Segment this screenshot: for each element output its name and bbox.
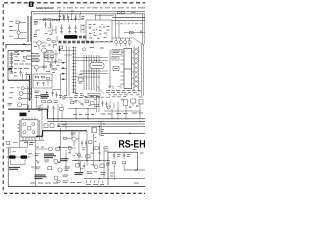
diode D604 [63, 78, 66, 80]
verticals [61, 128, 94, 166]
microtext [105, 147, 109, 151]
small box [139, 100, 143, 104]
resistor R690 [129, 31, 133, 33]
microtext [106, 163, 110, 165]
dark part label [20, 113, 27, 117]
IC601 block [124, 48, 132, 88]
motor circle [54, 176, 58, 180]
AC label dark [9, 167, 20, 169]
tick [140, 30, 141, 33]
verticals [84, 55, 99, 92]
diode D601 [63, 62, 66, 64]
risers [76, 109, 88, 119]
cap C631 [53, 106, 55, 113]
microtext [62, 125, 104, 136]
verticals [116, 14, 145, 44]
extra dots [111, 118, 140, 122]
parts below box [35, 91, 41, 97]
cap C701 [20, 70, 22, 76]
microtext [86, 183, 104, 185]
pins IC to ladder [132, 52, 134, 84]
ticks [82, 138, 96, 150]
label [9, 97, 13, 99]
diode D603 [63, 73, 66, 75]
verticals [114, 164, 124, 180]
svg-text:RS-EH6: RS-EH6 [118, 138, 145, 150]
wire [31, 66, 43, 72]
switch symbol [59, 16, 61, 22]
resistor R681 [123, 162, 126, 164]
IC pins bottom [23, 137, 35, 141]
cap C670 [98, 151, 100, 154]
resistor R660 [63, 137, 67, 139]
ellipse pad [57, 180, 61, 182]
legs [116, 38, 129, 46]
cluster left [79, 78, 83, 81]
loop wire [11, 160, 26, 165]
dark labels [75, 173, 84, 175]
extra parts band [112, 99, 140, 119]
microtext [110, 150, 144, 176]
wire with nodes [68, 108, 96, 110]
main circuit board outline [31, 12, 145, 99]
microtext [65, 167, 71, 171]
IC divider [124, 68, 132, 70]
box outline [8, 50, 31, 80]
page border top dashed [4, 2, 145, 4]
small box [86, 155, 90, 158]
pill text [92, 65, 102, 67]
long wire [84, 178, 145, 180]
IC pins left [121, 52, 125, 84]
cap C660 [81, 140, 83, 146]
AC motor M3 [18, 103, 22, 107]
cap C661 [85, 140, 87, 146]
cap C614 [50, 63, 52, 69]
microtext [35, 154, 40, 156]
mid cluster wires [44, 50, 60, 70]
diagonal [96, 86, 104, 94]
microtext [117, 155, 121, 157]
cap C610 [63, 16, 65, 22]
parts [60, 108, 64, 111]
triangle mark [28, 111, 30, 113]
resistor R651 [50, 124, 54, 128]
top mid box [86, 20, 112, 42]
riser [27, 105, 29, 110]
bus line 3 [57, 123, 145, 125]
dots [90, 24, 108, 35]
heavy bus wire [8, 79, 29, 81]
small parts above text [109, 85, 122, 90]
svg-text:MAIN CIRCUIT: MAIN CIRCUIT [36, 6, 54, 10]
bottom wire [20, 140, 45, 142]
cap C641 [106, 102, 108, 108]
side wires [20, 104, 43, 140]
cap C640 [102, 101, 104, 107]
microtext [54, 97, 66, 102]
top bus wire [33, 13, 145, 15]
parts row 1 [15, 50, 31, 52]
vertical rails [67, 46, 70, 96]
board bottom line [8, 186, 145, 188]
small box [56, 148, 60, 151]
cap C681 [123, 152, 125, 159]
resistor R631 [48, 100, 52, 102]
cap C621 [43, 83, 45, 87]
small box [100, 164, 104, 168]
rails [81, 24, 85, 33]
microtext [13, 141, 17, 143]
W label [28, 153, 32, 155]
microtext dashes [117, 23, 142, 25]
wire [58, 51, 72, 61]
transistor Q671 [78, 154, 81, 157]
cap C611 [45, 22, 47, 29]
wire [14, 33, 27, 39]
part [74, 16, 76, 22]
dark text rows [61, 159, 69, 161]
resistor R642 [90, 102, 94, 105]
wire stubs [36, 30, 57, 48]
junction dots [93, 147, 100, 150]
node dots [44, 19, 72, 20]
label [10, 87, 20, 89]
wire [68, 14, 81, 20]
extra verticals lower mid [66, 121, 94, 172]
resistor R601 [43, 19, 46, 21]
connector ladder crossings [134, 47, 138, 92]
resistor R680 [113, 162, 116, 164]
part [67, 16, 69, 22]
resistor R604 [56, 19, 59, 21]
transistor Q672 [94, 165, 98, 169]
resistor R622 [47, 78, 50, 80]
label block IC601 [34, 22, 39, 25]
small box [76, 164, 80, 167]
connector CN601 pin ladder [72, 47, 77, 94]
resistor R603 [52, 19, 55, 21]
cap C630 [47, 105, 49, 112]
small parts [37, 161, 39, 163]
resistor R645 [124, 100, 128, 106]
relay contact box [16, 21, 19, 24]
cap C613 [55, 59, 57, 65]
diode D660 [59, 146, 61, 148]
cap C602 [63, 14, 65, 20]
ticks [18, 125, 19, 132]
cap C620 [37, 83, 39, 87]
resistor R613 [45, 56, 48, 58]
small box [7, 141, 10, 144]
microtext [63, 175, 69, 183]
wire [112, 37, 132, 39]
resistor R612 [52, 41, 55, 43]
cap C601 [59, 14, 61, 20]
transistor Q2 [119, 40, 122, 43]
resistor R614 [51, 56, 54, 58]
transistor row: Q1 [115, 40, 118, 43]
small box [92, 128, 97, 133]
dense component row [59, 41, 94, 43]
bottom margin microtext [30, 182, 139, 184]
unit label dark [35, 175, 47, 179]
diode D620 [46, 92, 48, 94]
wires and marks [48, 26, 57, 34]
resistor R602 [48, 19, 51, 21]
resistor R701 [24, 56, 27, 58]
cap C671 [83, 163, 85, 169]
transistor Q661 [68, 146, 72, 150]
wire [7, 148, 27, 154]
wire [23, 93, 32, 95]
resistor R641 [85, 100, 89, 103]
wire [36, 148, 49, 150]
connector circle [58, 168, 62, 172]
fuse block 2 [21, 155, 28, 158]
IC pins top [23, 117, 35, 119]
connector CN30 pin ladder [30, 17, 32, 42]
wire [33, 19, 84, 21]
wire [52, 74, 61, 98]
transistor Q601a [37, 41, 41, 45]
IC701 [21, 120, 38, 137]
bus line 1 [47, 118, 145, 120]
resistor R630 [42, 100, 46, 102]
cap+gnd group 3 [74, 25, 77, 34]
vertical rail [109, 50, 111, 88]
dark label [8, 69, 12, 70]
terminal ladder [10, 52, 13, 73]
left riser [92, 121, 101, 135]
box outline [108, 152, 138, 185]
small box [48, 167, 52, 170]
vertical [65, 150, 67, 170]
small box [95, 147, 98, 150]
wire [22, 104, 28, 106]
lamp [19, 97, 22, 100]
sparse marks in box [89, 25, 110, 39]
transistor Q640 [107, 106, 110, 109]
wide flat box [88, 93, 100, 97]
wire [14, 22, 27, 31]
resistor R620 [36, 76, 39, 78]
wire [44, 51, 53, 59]
right rails [142, 44, 144, 96]
resistor R661 [89, 141, 92, 144]
fuse block 1 [9, 155, 16, 158]
wire [61, 63, 67, 79]
diode D602 [63, 67, 66, 69]
resistor R646 [131, 99, 136, 103]
microtext [90, 47, 105, 49]
rails right [28, 86, 32, 109]
wire [96, 14, 115, 16]
microtext [127, 155, 131, 157]
wire [124, 32, 145, 34]
ticks row [87, 180, 103, 183]
wire [24, 87, 31, 89]
microtext [36, 146, 71, 148]
wire [112, 20, 145, 22]
lower mid extra [68, 153, 94, 169]
risers to bus [47, 110, 62, 121]
microtext row [69, 97, 143, 98]
wire [6, 156, 31, 158]
microtext [29, 143, 34, 145]
cap C623 [52, 90, 54, 96]
bottom dense text [106, 90, 141, 94]
wire row [72, 160, 110, 162]
wire [67, 138, 79, 146]
resistor R611 [47, 39, 50, 41]
long vertical [35, 140, 37, 187]
wire [33, 42, 47, 49]
wire [104, 110, 140, 112]
horizontals [76, 58, 108, 78]
label [10, 92, 14, 94]
connector strip [29, 75, 32, 101]
transistor Q602a [42, 48, 47, 53]
microtext [24, 142, 35, 144]
transistor Q610 [82, 48, 85, 51]
extra ticks top-left cluster [34, 34, 57, 47]
extra micro parts [75, 97, 97, 106]
cap C612 [50, 22, 52, 29]
S mark [31, 166, 34, 168]
diode arrow [59, 161, 61, 163]
parts right [110, 102, 118, 109]
extra bottom band rows [59, 96, 73, 100]
junction dots [86, 57, 97, 74]
junction dot [129, 133, 131, 135]
grid label square L [29, 2, 34, 7]
transistor Q3 [124, 40, 127, 43]
title strip microtext [57, 7, 145, 9]
diagonal wire [75, 153, 83, 158]
verticals [87, 143, 104, 178]
transistor Q601 [34, 65, 38, 69]
parts row 2 [14, 69, 31, 76]
box edge [35, 96, 37, 109]
wire [112, 16, 145, 18]
microtext after label [79, 36, 86, 38]
transistor Q660 [72, 137, 76, 141]
vertical rail pair [27, 16, 28, 42]
wire [124, 169, 145, 171]
diode vertical [59, 46, 61, 54]
cap+gnd group 2 [68, 25, 71, 34]
sub-board box [33, 74, 52, 88]
signal name labels [32, 54, 41, 62]
verticals into box [96, 14, 101, 20]
head block box 2 [112, 56, 119, 60]
part number block [44, 154, 56, 158]
microtext [131, 11, 136, 13]
label AC [8, 103, 13, 105]
lighter row continuation [96, 41, 114, 43]
switch box [20, 141, 28, 147]
head block box 1 [112, 49, 122, 54]
page border left dashed [2, 4, 4, 191]
diode D650 [58, 125, 60, 127]
dark component label [64, 35, 78, 39]
marks [82, 17, 85, 19]
microtext [35, 167, 41, 169]
heavy AC wire [8, 109, 47, 119]
resistor R610 [43, 66, 46, 68]
switch label block [41, 95, 50, 98]
small box [59, 46, 63, 49]
junction dots [53, 118, 105, 127]
diagonal wire [78, 101, 84, 107]
bus line 4 [57, 125, 145, 127]
diagonal wire [133, 37, 144, 46]
arrow [18, 53, 20, 55]
junction dot [135, 169, 136, 170]
motor M2 [19, 92, 23, 96]
heavy stepped wire [36, 131, 87, 137]
wire [23, 72, 27, 80]
wire [21, 98, 31, 100]
parts above bus [60, 12, 81, 14]
rails [97, 96, 100, 112]
transistor Q30 [17, 31, 20, 34]
board lower-left edge [7, 148, 9, 187]
microtext [14, 56, 32, 64]
transistor Q4 [128, 40, 131, 43]
power feed wire with arrow [6, 44, 31, 48]
capstan motor M1 [21, 87, 24, 90]
microtext [38, 106, 42, 111]
cap C680 [113, 152, 115, 159]
resistor R640 [71, 101, 74, 103]
microtext [45, 52, 60, 73]
box [54, 160, 57, 163]
two boxes above bus [117, 11, 120, 13]
resistor R643 [95, 104, 99, 107]
transistor Q670 [49, 147, 53, 151]
wire [62, 147, 76, 154]
microtext labels [73, 113, 143, 114]
resistor R615 [53, 68, 56, 70]
small box 3 [113, 66, 119, 70]
resistor R650 [44, 124, 48, 128]
cap C624 [56, 92, 58, 98]
IC pill box [90, 62, 104, 68]
resistor R621 [42, 76, 45, 78]
bus line 2 [47, 120, 145, 122]
arrow on wire [24, 43, 27, 45]
cap+gnd group 1 [60, 25, 63, 34]
microtext [75, 93, 99, 95]
microtext [71, 133, 76, 135]
junction dot [99, 178, 100, 179]
label text micro [9, 21, 14, 36]
page border bottom dashed [4, 192, 145, 194]
wire [33, 81, 52, 86]
long wire [101, 132, 145, 134]
relay box [14, 53, 17, 55]
